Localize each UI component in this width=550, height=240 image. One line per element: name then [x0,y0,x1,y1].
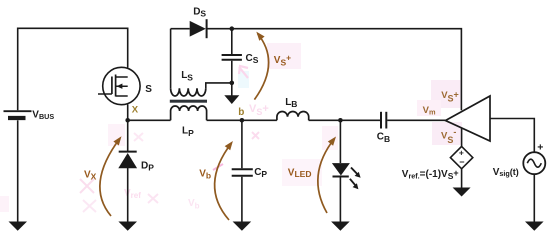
wire C_B to op-amp input node V_m [387,119,445,121]
arrow head pointing to node b [224,95,239,104]
wire battery positive to top rail to MOSFET drain [18,28,128,110]
op-amp U1 (triangle) [446,96,491,141]
inductor L_B [277,112,309,121]
junction LED / C_B [338,118,343,123]
ground (C_P branch) [233,222,252,231]
diode D_P [118,152,137,169]
dependent source V_ref (diamond) [450,146,472,168]
svg-text:DP: DP [141,161,154,173]
svg-text:VBUS: VBUS [32,110,54,121]
svg-text:Vm: Vm [423,105,436,116]
wire L_B to LED junction to C_B [309,119,380,121]
svg-text:CP: CP [254,167,267,179]
wire L_S left terminal [170,29,172,88]
svg-text:VLED: VLED [288,167,312,179]
wire V_sig to ground [533,174,535,222]
voltage arrow V_LED [318,137,336,214]
svg-text:DS: DS [193,7,206,19]
ground (LED branch) [331,222,350,231]
svg-text:CB: CB [377,131,390,144]
ground (battery) [9,222,28,231]
transformer core bar [170,100,207,103]
svg-text:−: − [459,157,464,167]
voltage arrow V_b [215,141,233,220]
svg-text:Vb: Vb [199,168,211,180]
junction D_S cathode / C_S [230,26,235,31]
svg-text:LB: LB [285,97,297,109]
inductor L_P (transformer primary) [171,106,207,120]
svg-text:X: X [132,104,139,115]
source V_sig (sine source) [523,141,545,174]
junction C_S / L_S [230,81,235,86]
svg-text:b: b [238,107,244,118]
ground (V_sig branch) [525,222,544,231]
voltage arrow V_X [100,136,122,216]
ground arrow (diamond branch) [453,188,471,197]
wire diamond to ground [461,169,463,188]
wire battery negative to ground [17,120,19,222]
wire op-amp V_S- stub to diamond [461,128,463,147]
transistor S (MOSFET in circle) [98,67,140,104]
svg-text:+: + [537,141,543,153]
battery V_BUS [4,111,32,118]
svg-text:VX: VX [84,170,97,182]
svg-text:CS: CS [246,53,259,65]
capacitor C_P [232,169,253,175]
wire L_S right terminal to C_S junction [206,83,232,88]
svg-text:S: S [145,84,152,95]
voltage arrow V_S+ (across C_S branch) [254,32,268,100]
wire MOSFET source to node X [127,105,129,152]
capacitor C_S [222,55,242,60]
wire D_P anode to ground [127,168,129,222]
wire top rail: L_S top corner through D_S to op-amp V_S+ [171,29,462,111]
capacitor C_B [381,112,386,129]
inductor L_S (transformer secondary) [171,88,206,96]
node X junction dot [125,118,130,123]
LED diode with emission arrows [332,163,361,189]
wire op-amp output to V_sig [490,119,534,153]
node b junction dot [240,118,245,123]
wire L_P right terminal to node b to L_B [207,119,277,121]
wire node b to C_P to ground [241,120,243,222]
wire C_S branch [231,29,233,96]
diode D_S [190,19,207,38]
wire LED branch [339,120,341,222]
ground (D_P branch) [118,222,137,231]
svg-text:Vsig(t): Vsig(t) [493,167,519,178]
wire node X to L_P left terminal [128,119,171,121]
svg-text:LP: LP [182,126,194,138]
svg-text:LS: LS [181,70,193,82]
